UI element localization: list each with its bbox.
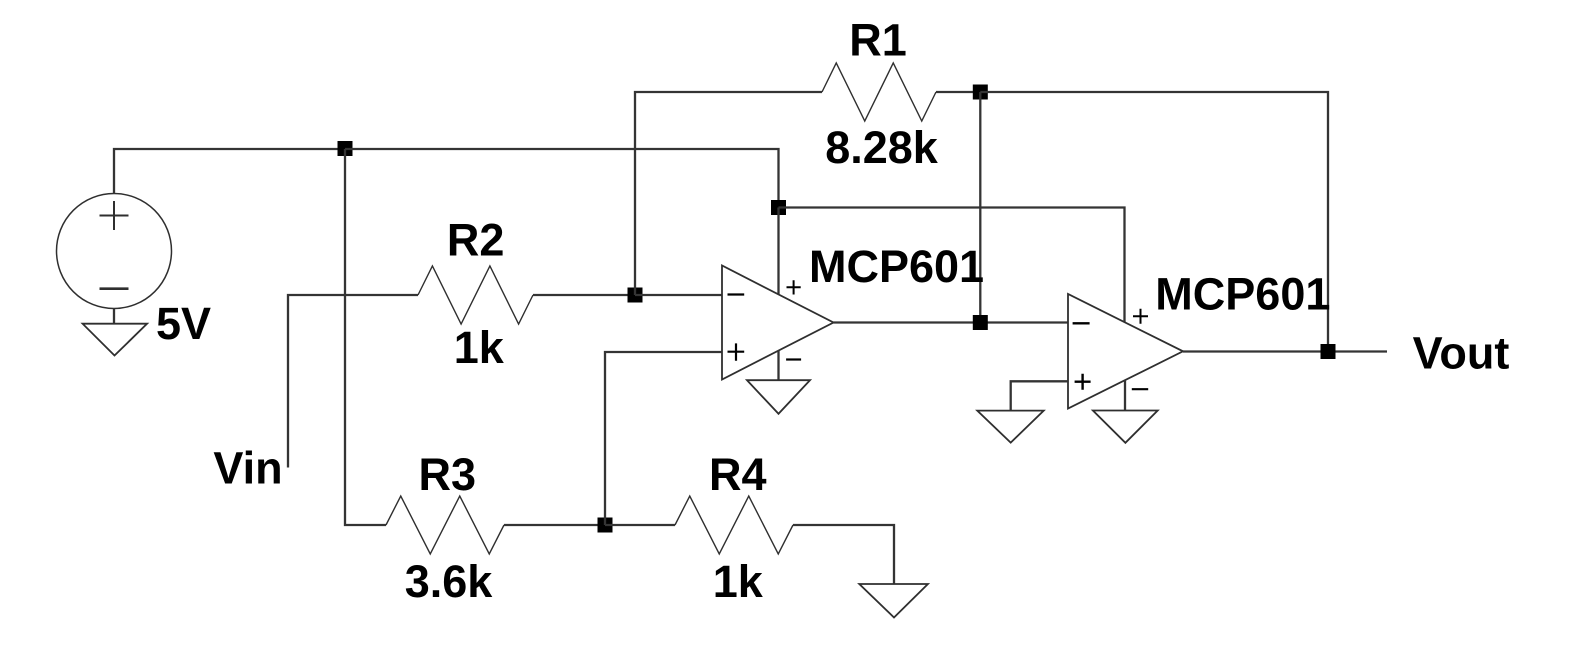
svg-text:R2: R2 xyxy=(447,215,505,266)
svg-text:MCP601: MCP601 xyxy=(809,241,984,292)
wire: J4 to U1 - input xyxy=(635,294,722,296)
ground (U2 V-) xyxy=(1093,411,1158,443)
wire: J3 to R4 xyxy=(605,524,675,526)
resistor R3 xyxy=(386,496,504,554)
wire: J1 down to R3 xyxy=(345,149,386,525)
junction J7 (Vout node) xyxy=(1321,344,1336,359)
junction J2 (supply node) xyxy=(771,200,786,215)
wire: J3 up to U1 + input xyxy=(605,352,722,525)
junction J6 (U1 out node) xyxy=(973,315,988,330)
svg-text:8.28k: 8.28k xyxy=(825,122,939,173)
wire: J5 to Vout node (feedback) xyxy=(980,92,1328,352)
resistor R4 xyxy=(675,496,793,554)
wire: U1 output to U2 - input xyxy=(834,321,1069,323)
wire: source bottom to ground xyxy=(113,309,115,324)
U2 V- marker xyxy=(1132,388,1148,390)
U2 - input marker xyxy=(1073,322,1090,324)
op-amp U1 xyxy=(722,266,834,380)
wire: R2 to J4 xyxy=(533,294,635,296)
svg-text:3.6k: 3.6k xyxy=(405,556,494,607)
U2 + input marker xyxy=(1075,374,1091,390)
wire: U2 output to Vout xyxy=(1183,350,1387,352)
wire: J5 down to J6 xyxy=(979,92,981,323)
svg-text:Vin: Vin xyxy=(213,443,282,494)
junction J4 (U1 inverting node) xyxy=(628,288,643,303)
wire: R1 to J5 xyxy=(936,91,980,93)
U1 V- marker xyxy=(786,358,801,360)
junction J5 (feedback top) xyxy=(973,85,988,100)
ground (U2 + input) xyxy=(977,411,1043,443)
wire: Vin stub to R2 xyxy=(288,295,418,468)
svg-text:5V: 5V xyxy=(156,298,211,349)
svg-text:1k: 1k xyxy=(713,556,764,607)
resistor R2 xyxy=(418,266,533,324)
ground (R4) xyxy=(859,584,928,618)
U1 - input marker xyxy=(728,293,745,295)
ground (U1) xyxy=(747,380,810,414)
wire: J2 to U2 V+ pin xyxy=(779,208,1125,323)
wire: R4 to ground xyxy=(793,525,894,584)
wire: U2 V- to ground xyxy=(1124,380,1126,411)
svg-text:R4: R4 xyxy=(709,449,767,500)
U2 V+ marker xyxy=(1133,309,1148,324)
U1 + input marker xyxy=(728,343,745,360)
wire: J2 down to U1 V+ pin xyxy=(777,208,779,295)
svg-text:MCP601: MCP601 xyxy=(1155,269,1330,320)
svg-text:R3: R3 xyxy=(419,449,477,500)
svg-text:R1: R1 xyxy=(849,15,907,66)
wire: J4 up to R1 xyxy=(635,92,822,295)
U1 V+ marker xyxy=(787,280,801,294)
svg-text:Vout: Vout xyxy=(1413,328,1510,379)
ground (source) xyxy=(83,324,148,356)
wire: rail J1 to corner above U1 xyxy=(345,149,779,208)
voltage source V1 xyxy=(57,194,172,309)
wire: source top to rail xyxy=(114,149,345,194)
junction J3 xyxy=(598,518,613,533)
wire: R3 to J3 xyxy=(504,524,605,526)
resistor R1 xyxy=(822,63,936,121)
svg-text:1k: 1k xyxy=(454,322,505,373)
wire: U2 + input to ground xyxy=(1011,381,1068,410)
wire: U1 V- to ground xyxy=(777,351,779,381)
op-amp U2 xyxy=(1068,294,1183,409)
node A: 5V rail junction xyxy=(338,141,353,156)
